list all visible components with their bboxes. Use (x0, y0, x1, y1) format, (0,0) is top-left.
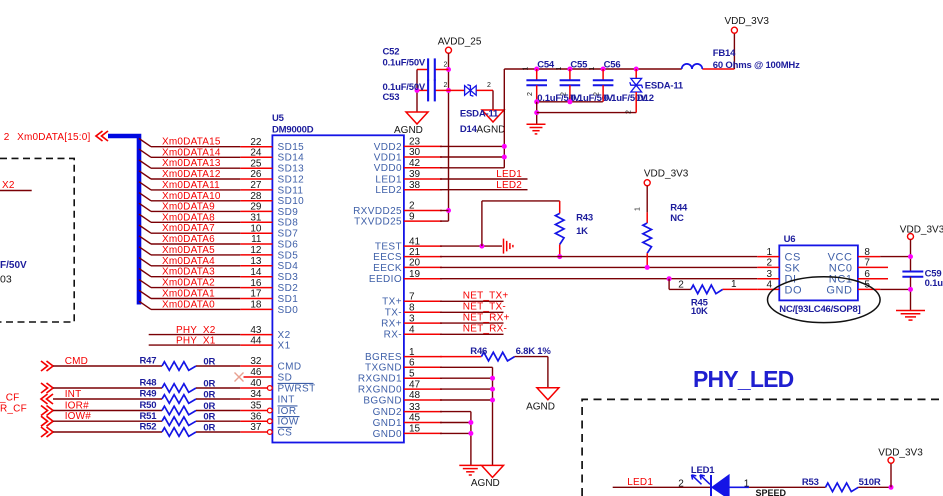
svg-text:CMD: CMD (278, 361, 302, 372)
svg-text:LED1: LED1 (496, 169, 522, 180)
svg-text:SD0: SD0 (278, 305, 299, 316)
svg-text:VDD1: VDD1 (374, 152, 402, 163)
svg-text:VDD_3V3: VDD_3V3 (644, 168, 689, 179)
svg-text:1: 1 (589, 67, 596, 71)
svg-text:NET_TX+: NET_TX+ (463, 291, 509, 302)
svg-text:VDD_3V3: VDD_3V3 (878, 447, 923, 458)
svg-text:0R: 0R (203, 401, 215, 412)
svg-text:1: 1 (556, 67, 563, 71)
svg-text:NET_RX+: NET_RX+ (463, 312, 510, 323)
svg-text:R48: R48 (140, 378, 157, 389)
svg-text:GND1: GND1 (373, 418, 402, 429)
svg-text:R43: R43 (576, 212, 593, 223)
svg-text:AGND: AGND (394, 125, 423, 136)
svg-text:R47: R47 (140, 356, 157, 367)
svg-text:SD13: SD13 (278, 164, 305, 175)
svg-text:INT: INT (65, 389, 82, 400)
svg-text:LED2: LED2 (496, 180, 522, 191)
svg-text:SD3: SD3 (278, 272, 299, 283)
svg-text:PHY_LED: PHY_LED (693, 366, 794, 392)
svg-text:F/50V: F/50V (0, 260, 27, 271)
svg-text:NC0: NC0 (829, 262, 853, 274)
svg-text:0.1uF: 0.1uF (925, 278, 943, 289)
svg-text:2: 2 (444, 61, 448, 68)
svg-text:10K: 10K (691, 306, 708, 317)
svg-text:X1: X1 (278, 341, 291, 352)
svg-text:LED1: LED1 (691, 465, 715, 476)
svg-text:IOW: IOW (278, 417, 299, 428)
svg-text:EECK: EECK (373, 263, 402, 274)
svg-text:SD2: SD2 (278, 283, 299, 294)
svg-text:03: 03 (0, 274, 12, 286)
svg-text:SD9: SD9 (278, 207, 299, 218)
svg-text:R44: R44 (670, 202, 688, 213)
svg-text:TXGND: TXGND (365, 363, 402, 374)
svg-text:IOW#: IOW# (65, 411, 92, 422)
svg-text:SD5: SD5 (278, 250, 299, 261)
svg-text:0R: 0R (203, 423, 215, 434)
svg-text:TEST: TEST (375, 242, 402, 253)
svg-text:X2: X2 (278, 330, 291, 341)
svg-text:DO: DO (785, 284, 803, 296)
svg-text:R50: R50 (140, 400, 157, 411)
svg-text:U5: U5 (272, 113, 285, 124)
svg-text:C56: C56 (604, 59, 621, 70)
svg-text:R51: R51 (140, 411, 158, 422)
svg-text:VDD0: VDD0 (374, 163, 402, 174)
svg-text:R52: R52 (140, 422, 157, 433)
svg-text:RXVDD25: RXVDD25 (353, 206, 402, 217)
svg-text:AGND: AGND (477, 125, 506, 136)
svg-text:2: 2 (527, 92, 534, 96)
svg-text:ESDA-11: ESDA-11 (460, 109, 499, 120)
svg-text:EECS: EECS (373, 252, 402, 263)
svg-text:2: 2 (487, 82, 491, 89)
svg-text:1: 1 (744, 479, 750, 490)
svg-text:Xm0DATA[15:0]: Xm0DATA[15:0] (17, 132, 90, 143)
svg-text:ESDA-11: ESDA-11 (645, 81, 684, 92)
svg-text:C54: C54 (537, 59, 555, 70)
svg-text:1K: 1K (576, 226, 588, 237)
svg-text:2: 2 (560, 92, 567, 96)
svg-text:DM9000D: DM9000D (272, 124, 314, 135)
svg-text:NET_TX-: NET_TX- (463, 302, 506, 313)
svg-text:TXVDD25: TXVDD25 (354, 217, 402, 228)
svg-text:R49: R49 (140, 389, 157, 400)
svg-text:2: 2 (626, 110, 633, 114)
svg-text:RXGND1: RXGND1 (358, 374, 402, 385)
svg-text:GND0: GND0 (373, 429, 402, 440)
svg-text:SD15: SD15 (278, 142, 305, 153)
svg-text:GND: GND (826, 284, 852, 296)
svg-text:AGND: AGND (471, 478, 500, 489)
svg-text:SD12: SD12 (278, 174, 305, 185)
svg-text:TX-: TX- (385, 308, 402, 319)
svg-text:RX-: RX- (384, 330, 402, 341)
svg-text:D14: D14 (460, 124, 478, 135)
svg-text:60 Ohms @ 100MHz: 60 Ohms @ 100MHz (713, 60, 800, 71)
svg-text:SD7: SD7 (278, 229, 299, 240)
svg-text:2: 2 (594, 92, 601, 96)
svg-text:SD10: SD10 (278, 196, 305, 207)
svg-text:2: 2 (678, 280, 684, 291)
svg-text:R46: R46 (470, 346, 487, 357)
svg-text:GND2: GND2 (373, 407, 402, 418)
svg-text:1: 1 (523, 67, 530, 71)
svg-text:R53: R53 (802, 477, 819, 488)
svg-text:AVDD_25: AVDD_25 (438, 36, 482, 47)
svg-text:CMD: CMD (65, 356, 88, 367)
svg-text:0R: 0R (203, 357, 215, 368)
svg-text:RX+: RX+ (381, 319, 402, 330)
svg-text:IOR#: IOR# (65, 401, 89, 412)
svg-text:6.8K 1%: 6.8K 1% (516, 346, 552, 357)
svg-text:SD1: SD1 (278, 294, 299, 305)
svg-text:1: 1 (635, 207, 642, 211)
svg-text:SD14: SD14 (278, 153, 305, 164)
svg-text:SD: SD (278, 372, 293, 383)
svg-text:X2: X2 (2, 180, 15, 191)
svg-text:1: 1 (731, 279, 737, 290)
svg-text:LED1: LED1 (627, 477, 653, 488)
svg-text:EEDIO: EEDIO (369, 274, 402, 285)
svg-text:INT: INT (278, 394, 295, 405)
svg-text:510R: 510R (859, 477, 881, 488)
svg-text:SD8: SD8 (278, 218, 299, 229)
svg-text:0R: 0R (203, 390, 215, 401)
svg-text:TX+: TX+ (382, 297, 402, 308)
svg-text:RXGND0: RXGND0 (358, 385, 402, 396)
svg-text:NC/[93LC46/SOP8]: NC/[93LC46/SOP8] (779, 304, 860, 315)
svg-text:LED2: LED2 (375, 185, 402, 196)
svg-text:U6: U6 (784, 234, 796, 245)
svg-text:C55: C55 (570, 59, 588, 70)
svg-text:C53: C53 (383, 92, 400, 103)
svg-text:SD11: SD11 (278, 185, 304, 196)
svg-text:NET_RX-: NET_RX- (463, 324, 507, 335)
svg-text:IOR: IOR (278, 406, 297, 417)
svg-text:_CF: _CF (0, 392, 20, 403)
svg-text:D12: D12 (637, 93, 654, 104)
svg-text:CS: CS (278, 427, 293, 438)
svg-text:0.1uF/50V: 0.1uF/50V (383, 58, 426, 69)
svg-text:NC: NC (670, 213, 684, 224)
svg-text:2: 2 (678, 479, 684, 490)
svg-text:LED1: LED1 (375, 174, 402, 185)
svg-text:2: 2 (4, 132, 10, 143)
svg-text:FB14: FB14 (713, 48, 736, 59)
svg-text:SPEED: SPEED (756, 488, 787, 496)
svg-text:R_CF: R_CF (0, 404, 27, 415)
svg-text:BGRES: BGRES (365, 352, 402, 363)
svg-text:SD4: SD4 (278, 261, 299, 272)
svg-text:0R: 0R (203, 379, 215, 390)
svg-text:SD6: SD6 (278, 239, 299, 250)
svg-text:PWRST: PWRST (278, 383, 316, 394)
svg-text:C52: C52 (383, 46, 400, 57)
svg-text:VDD_3V3: VDD_3V3 (900, 224, 943, 235)
svg-text:BGGND: BGGND (363, 395, 402, 406)
svg-text:SK: SK (785, 262, 801, 274)
svg-text:VDD2: VDD2 (374, 142, 402, 153)
svg-text:2: 2 (444, 82, 448, 89)
svg-text:0R: 0R (203, 412, 215, 423)
svg-text:AGND: AGND (526, 402, 555, 413)
svg-text:VDD_3V3: VDD_3V3 (725, 16, 770, 27)
